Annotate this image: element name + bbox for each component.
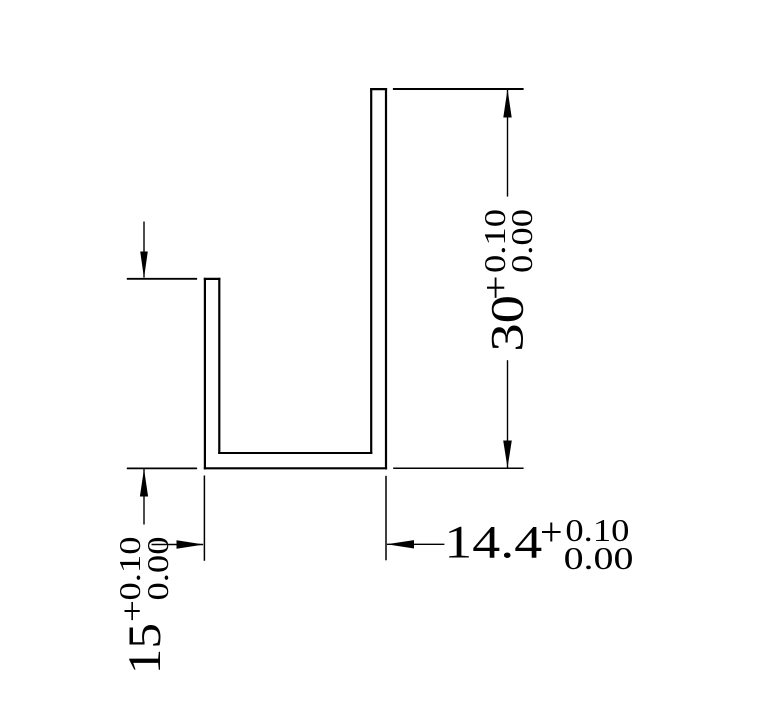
svg-text:+: +	[540, 510, 563, 555]
dimension line 30 lower segment	[507, 360, 509, 468]
arrowhead 30 bottom (down)	[503, 441, 512, 468]
arrowhead 15 bottom (up)	[140, 469, 148, 497]
svg-text:15: 15	[118, 623, 171, 674]
profile tall leg top cap	[370, 88, 387, 90]
dimension line 15 upper segment	[143, 222, 145, 278]
extension line left top	[127, 278, 197, 280]
dimension line 14.4 right segment	[387, 543, 444, 545]
profile bottom inner line	[218, 452, 372, 454]
svg-text:0.00: 0.00	[141, 537, 175, 601]
extension line vertical left (14.4 dim)	[203, 476, 205, 561]
svg-text:+: +	[475, 275, 516, 300]
profile bottom outer line	[204, 467, 387, 469]
arrowhead 15 top (down)	[140, 252, 148, 279]
dimension line 30 upper segment	[507, 90, 509, 197]
profile tall leg left line	[370, 88, 372, 454]
extension line top right	[393, 88, 524, 90]
svg-text:30: 30	[482, 295, 533, 352]
dimension line 14.4 left segment	[152, 544, 204, 546]
arrowhead 30 top (up)	[503, 89, 511, 118]
svg-text:+: +	[114, 600, 151, 622]
profile short leg top cap	[204, 278, 221, 280]
extension line bottom left	[127, 467, 197, 469]
profile short leg right line	[218, 278, 220, 454]
svg-text:14.4: 14.4	[444, 517, 542, 569]
svg-text:0.00: 0.00	[505, 209, 539, 273]
arrowhead 14.4 left (pointing right)	[177, 540, 204, 548]
profile tall leg right line	[385, 88, 387, 469]
extension line vertical right (14.4 dim)	[385, 476, 387, 561]
profile short leg left line	[204, 278, 206, 470]
dimension line 15 lower segment	[143, 469, 145, 525]
arrowhead 14.4 right (pointing left)	[387, 540, 414, 548]
svg-text:0.00: 0.00	[564, 541, 634, 576]
extension line bottom right	[393, 467, 523, 469]
